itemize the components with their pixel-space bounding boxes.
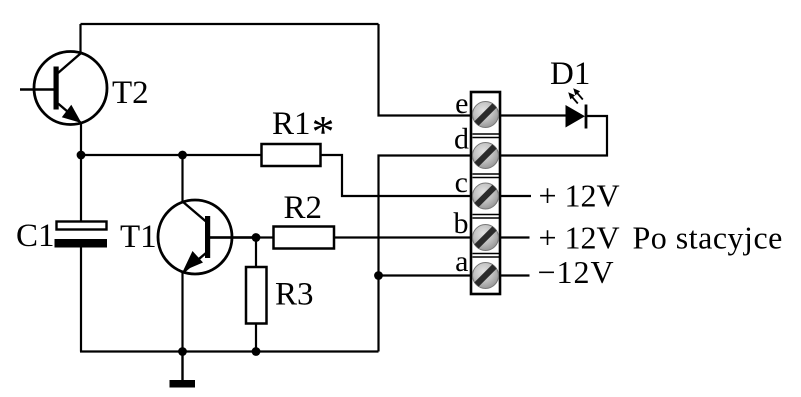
wire T2 emitter down to node row: [80, 123, 82, 157]
wire terminal b stub right: [500, 236, 530, 238]
svg-text:+ 12V: + 12V: [539, 178, 620, 214]
terminal screw d: [473, 143, 499, 169]
svg-text:T1: T1: [120, 219, 157, 255]
svg-text:a: a: [455, 245, 468, 278]
wire bottom rail: [80, 350, 379, 352]
svg-text:*: *: [312, 106, 335, 157]
resistor R3: [246, 238, 314, 352]
terminal screw a: [473, 263, 499, 289]
svg-text:D1: D1: [550, 56, 590, 92]
wire T2 collector up: [79, 24, 81, 54]
terminal screw e: [473, 102, 499, 128]
node junction a-row: [374, 271, 383, 280]
svg-text:b: b: [454, 207, 469, 240]
transistor T2: [20, 52, 149, 125]
resistor R1: [262, 106, 335, 166]
resistor R2: [274, 190, 335, 249]
terminal block body: [471, 92, 500, 294]
wire T1 collector up to node row: [181, 155, 183, 202]
separator b/a: [473, 254, 500, 258]
wire R2 right to terminal b: [334, 236, 471, 238]
wire right vertical down to terminal e: [379, 24, 471, 116]
wire R1 right to corner down to c row: [321, 155, 471, 196]
wire terminal a stub left: [379, 274, 471, 276]
separator c/b: [473, 215, 500, 219]
svg-text:R1: R1: [272, 106, 311, 142]
svg-text:C1: C1: [16, 218, 55, 254]
terminal screw c: [473, 183, 499, 209]
svg-text:R3: R3: [275, 277, 314, 313]
separator d/c: [473, 174, 500, 178]
svg-text:e: e: [455, 87, 468, 120]
svg-text:−12V: −12V: [538, 254, 615, 290]
wire node row: [81, 154, 262, 156]
svg-text:R2: R2: [284, 190, 323, 226]
node junction R3 bottom: [252, 347, 261, 356]
wire terminal a stub right: [500, 274, 530, 276]
separator e/d: [473, 134, 500, 138]
node junction left: [77, 151, 86, 160]
LED D1: [500, 56, 590, 129]
svg-text:d: d: [454, 123, 469, 156]
wire T1 emitter down to bottom rail: [181, 272, 183, 352]
wire T1 base to R2: [210, 236, 274, 238]
svg-text:T2: T2: [112, 75, 149, 111]
capacitor C1: [16, 155, 107, 352]
node junction base/R3: [252, 233, 261, 242]
terminal screw b: [473, 225, 499, 251]
svg-text:c: c: [455, 166, 468, 199]
node junction T1 collector: [178, 151, 187, 160]
wire terminal c stub right: [500, 195, 531, 197]
wire top rail from T2 collector to right vertical: [81, 23, 379, 25]
wire LED cathode back to terminal d: [500, 116, 607, 156]
node junction emitter/ground: [178, 347, 187, 356]
wire terminal d to lower vertical: [379, 156, 471, 352]
svg-text:Po stacyjce: Po stacyjce: [633, 220, 783, 256]
transistor T1: [120, 200, 258, 274]
ground: [170, 352, 196, 388]
svg-text:+ 12V: + 12V: [539, 220, 620, 256]
